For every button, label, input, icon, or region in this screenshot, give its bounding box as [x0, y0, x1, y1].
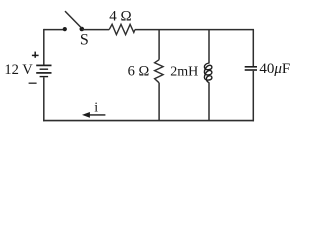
svg-text:S: S	[80, 31, 89, 48]
wire left rail lower	[43, 77, 45, 121]
inductor L1 2mH coil	[204, 63, 212, 83]
resistor R2 6 ohm zigzag	[155, 60, 164, 83]
wire 6 ohm branch lower	[158, 83, 160, 121]
wire right rail upper	[252, 30, 254, 67]
wire 6 ohm branch upper	[158, 30, 160, 60]
battery V1 12V long plate 2	[36, 72, 51, 74]
svg-text:12 V: 12 V	[4, 62, 33, 78]
wire switch to resistor	[82, 29, 109, 31]
capacitor C1 40uF top plate	[245, 66, 257, 68]
svg-text:40μF: 40μF	[259, 61, 290, 77]
wire top-left segment	[44, 29, 65, 31]
battery V1 12V long plate 1	[36, 64, 51, 66]
wire right rail lower	[252, 71, 254, 122]
svg-text:2mH: 2mH	[170, 65, 198, 80]
svg-text:4 Ω: 4 Ω	[109, 8, 131, 24]
switch right contact dot	[80, 27, 85, 32]
battery minus sign	[29, 82, 37, 84]
switch left contact dot	[63, 27, 67, 31]
battery plus sign	[32, 52, 39, 58]
switch S blade	[65, 11, 82, 28]
wire inductor branch upper	[208, 30, 210, 64]
battery V1 12V short plate 2	[40, 76, 49, 78]
current arrow head	[82, 112, 90, 118]
svg-text:i: i	[94, 100, 98, 115]
wire left rail upper	[43, 29, 45, 65]
capacitor C1 40uF bottom plate	[245, 69, 257, 71]
svg-text:6 Ω: 6 Ω	[128, 64, 150, 80]
wire inductor branch lower	[208, 82, 210, 120]
wire resistor to top-right corner	[135, 29, 254, 31]
resistor R1 4 ohm zigzag	[109, 24, 135, 34]
current arrow shaft	[89, 114, 105, 116]
wire bottom	[43, 120, 254, 122]
battery V1 12V short plate 1	[40, 68, 49, 70]
